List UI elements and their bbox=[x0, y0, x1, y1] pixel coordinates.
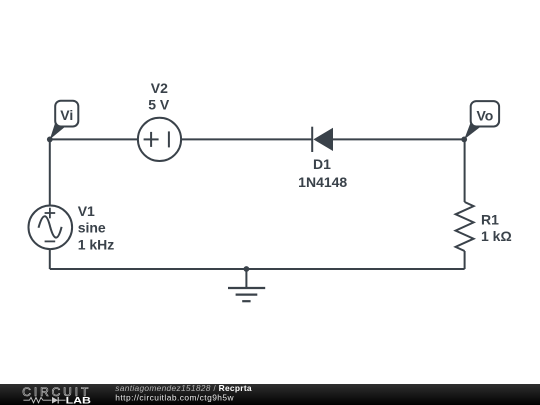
svg-text:Vi: Vi bbox=[60, 107, 73, 123]
svg-text:V1: V1 bbox=[78, 203, 95, 219]
label D1 value bbox=[298, 156, 347, 190]
svg-text:sine: sine bbox=[78, 220, 106, 236]
svg-text:1 kHz: 1 kHz bbox=[78, 237, 115, 253]
wire right vertical upper bbox=[464, 139, 466, 202]
footer attribution line bbox=[115, 383, 252, 402]
wire left vertical upper bbox=[49, 139, 51, 205]
resistor R1 bbox=[456, 202, 474, 251]
svg-text:5 V: 5 V bbox=[148, 97, 170, 113]
wire left vertical lower bbox=[49, 249, 51, 269]
node Vi bbox=[47, 101, 78, 143]
ground bbox=[228, 266, 265, 301]
label V2 value bbox=[148, 80, 170, 113]
svg-text:D1: D1 bbox=[313, 156, 331, 172]
svg-text:http://circuitlab.com/ctg9h5w: http://circuitlab.com/ctg9h5w bbox=[115, 393, 234, 403]
wire right vertical lower bbox=[464, 251, 466, 269]
logo CircuitLab wordmark bbox=[22, 385, 91, 405]
svg-text:R1: R1 bbox=[481, 211, 499, 227]
wire top-left horizontal bbox=[50, 138, 138, 140]
voltage source V1 bbox=[29, 206, 73, 250]
label V1 value bbox=[78, 203, 115, 253]
svg-text:1 kΩ: 1 kΩ bbox=[481, 228, 512, 244]
footer bar bbox=[0, 384, 540, 405]
diode D1 bbox=[312, 127, 333, 152]
label R1 value bbox=[481, 211, 512, 244]
wire top-right horizontal bbox=[333, 138, 465, 140]
node Vo bbox=[461, 101, 499, 142]
logo waveform bbox=[23, 397, 65, 404]
svg-text:V2: V2 bbox=[151, 80, 168, 96]
svg-text:1N4148: 1N4148 bbox=[298, 174, 347, 190]
svg-text:Vo: Vo bbox=[476, 107, 493, 123]
svg-text:LAB: LAB bbox=[66, 395, 92, 405]
wire top-middle horizontal bbox=[181, 138, 312, 140]
voltage source V2 bbox=[138, 118, 181, 161]
wire bottom rail bbox=[50, 268, 465, 270]
